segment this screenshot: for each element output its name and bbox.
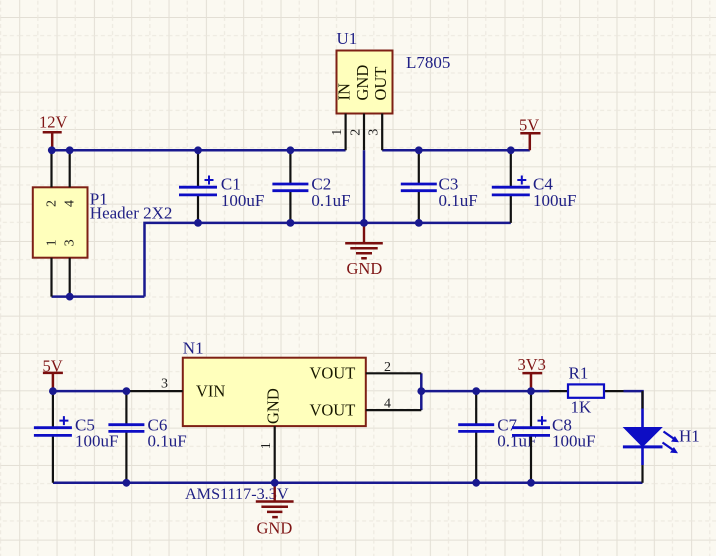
svg-text:GND: GND [264, 388, 283, 424]
svg-text:H1: H1 [679, 427, 700, 446]
svg-text:GND: GND [257, 519, 293, 538]
wire: bottom rail [53, 482, 643, 485]
power port 3V3 [518, 355, 546, 391]
svg-text:VOUT: VOUT [309, 364, 355, 383]
wire: U1 pin2 down to gnd rail [363, 150, 366, 223]
svg-text:12V: 12V [39, 113, 68, 132]
junction dots bottom rail [123, 479, 131, 487]
svg-text:0.1uF: 0.1uF [311, 191, 350, 210]
wire: LED cathode down to rail [641, 465, 643, 483]
capacitor C6 [108, 391, 186, 483]
power port 5V (top right) [519, 116, 541, 151]
wire: 5V mid rail left [53, 390, 127, 393]
wire: 12V top rail [52, 149, 345, 152]
svg-text:2: 2 [384, 360, 391, 375]
capacitor C2 [272, 150, 350, 223]
svg-text:4: 4 [384, 397, 391, 412]
capacitor C8 (polarized) [512, 391, 595, 483]
wire: 3V3 mid rail right [421, 390, 549, 393]
svg-text:0.1uF: 0.1uF [439, 191, 478, 210]
svg-text:2: 2 [349, 129, 364, 136]
svg-text:R1: R1 [569, 364, 589, 383]
capacitor C3 [401, 150, 478, 223]
capacitor C4 (polarized) [492, 150, 577, 223]
svg-text:100uF: 100uF [221, 191, 264, 210]
svg-text:U1: U1 [337, 29, 358, 48]
regulator N1 [126, 358, 421, 483]
wire: top ground rail [52, 295, 145, 298]
svg-text:GND: GND [347, 259, 383, 278]
power port 5V (bottom) [43, 356, 63, 391]
junction dots gnd rail [194, 219, 202, 227]
ground symbol (bottom) [256, 483, 294, 538]
capacitor C5 (polarized) [34, 391, 119, 483]
svg-text:1: 1 [259, 442, 274, 449]
svg-text:Header 2X2: Header 2X2 [90, 203, 173, 222]
svg-text:IN: IN [335, 83, 354, 100]
capacitor C1 (polarized) [179, 150, 264, 223]
connector P1 [33, 150, 88, 296]
junction dots top rail [48, 146, 56, 154]
junction dots mid rail [49, 387, 57, 395]
regulator U1 [330, 51, 392, 151]
svg-text:1: 1 [330, 129, 345, 136]
svg-text:0.1uF: 0.1uF [148, 432, 187, 451]
svg-text:100uF: 100uF [533, 191, 576, 210]
svg-text:GND: GND [353, 65, 372, 101]
wire: N1 out pins joiner [420, 373, 423, 410]
svg-text:100uF: 100uF [552, 432, 595, 451]
wire: R1 to LED [624, 391, 643, 408]
svg-text:3V3: 3V3 [518, 355, 546, 374]
svg-text:2: 2 [45, 200, 60, 207]
svg-text:3: 3 [367, 129, 382, 136]
svg-text:1K: 1K [571, 398, 593, 417]
svg-text:VOUT: VOUT [309, 400, 355, 419]
svg-text:100uF: 100uF [75, 432, 118, 451]
svg-text:L7805: L7805 [406, 53, 450, 72]
svg-text:VIN: VIN [196, 382, 225, 401]
svg-text:3: 3 [161, 376, 168, 391]
wire: 5V top rail [382, 149, 530, 152]
LED H1 [623, 391, 700, 465]
capacitor C7 [458, 391, 536, 483]
svg-text:1: 1 [45, 239, 60, 246]
svg-text:4: 4 [63, 200, 78, 207]
ground symbol (top) [345, 223, 383, 278]
power port 12V [39, 113, 68, 151]
resistor R1 [549, 364, 623, 417]
svg-text:5V: 5V [519, 116, 539, 135]
svg-text:N1: N1 [183, 339, 204, 358]
svg-text:3: 3 [63, 239, 78, 246]
wire: P1 bottom to gnd rail riser [145, 223, 511, 297]
svg-text:OUT: OUT [371, 67, 390, 101]
